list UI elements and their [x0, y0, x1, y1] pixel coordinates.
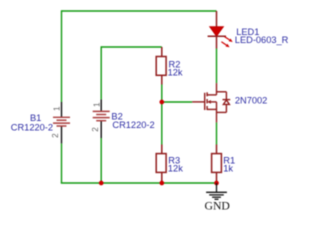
svg-text:CR1220-2: CR1220-2 — [11, 123, 53, 133]
wire top inner — [101, 46, 162, 48]
transistor Q1 bulk arrow — [207, 100, 211, 104]
svg-text:12k: 12k — [168, 68, 183, 78]
svg-text:2: 2 — [51, 133, 60, 138]
wire node A to R3 — [161, 102, 163, 145]
svg-text:CR1220-2: CR1220-2 — [112, 120, 154, 130]
wire B2 bottom — [100, 138, 102, 183]
junction bottom R3 — [159, 181, 164, 186]
wire top outer — [62, 10, 217, 12]
LED LED1 — [208, 11, 233, 49]
wire LED to drain — [216, 49, 218, 84]
wire gate — [162, 101, 192, 103]
svg-text:2N7002: 2N7002 — [235, 96, 267, 106]
wire source to R1 — [216, 122, 218, 144]
wire R2 to node A — [161, 85, 163, 103]
svg-text:1: 1 — [53, 106, 62, 111]
wire bottom — [61, 182, 217, 184]
svg-text:12k: 12k — [168, 164, 183, 174]
transistor Q1 2N7002 — [192, 83, 230, 122]
battery B2 — [93, 99, 110, 138]
svg-text:2: 2 — [91, 127, 100, 132]
svg-text:B1: B1 — [30, 113, 41, 123]
resistor R1 — [212, 145, 222, 184]
junction bottom B2 — [99, 181, 104, 186]
ground — [206, 183, 227, 199]
junction bottom GND — [214, 181, 219, 186]
resistor R2 — [156, 47, 166, 85]
svg-text:LED-0603_R: LED-0603_R — [235, 35, 289, 45]
svg-text:1: 1 — [92, 102, 101, 107]
wire left outer upper — [61, 10, 63, 102]
svg-text:GND: GND — [205, 199, 230, 212]
svg-text:1k: 1k — [223, 164, 233, 174]
wire B2 top — [100, 46, 102, 99]
resistor R3 — [156, 145, 166, 184]
wire left outer lower — [61, 143, 63, 183]
battery B1 — [53, 102, 70, 143]
junction node A — [159, 100, 164, 105]
